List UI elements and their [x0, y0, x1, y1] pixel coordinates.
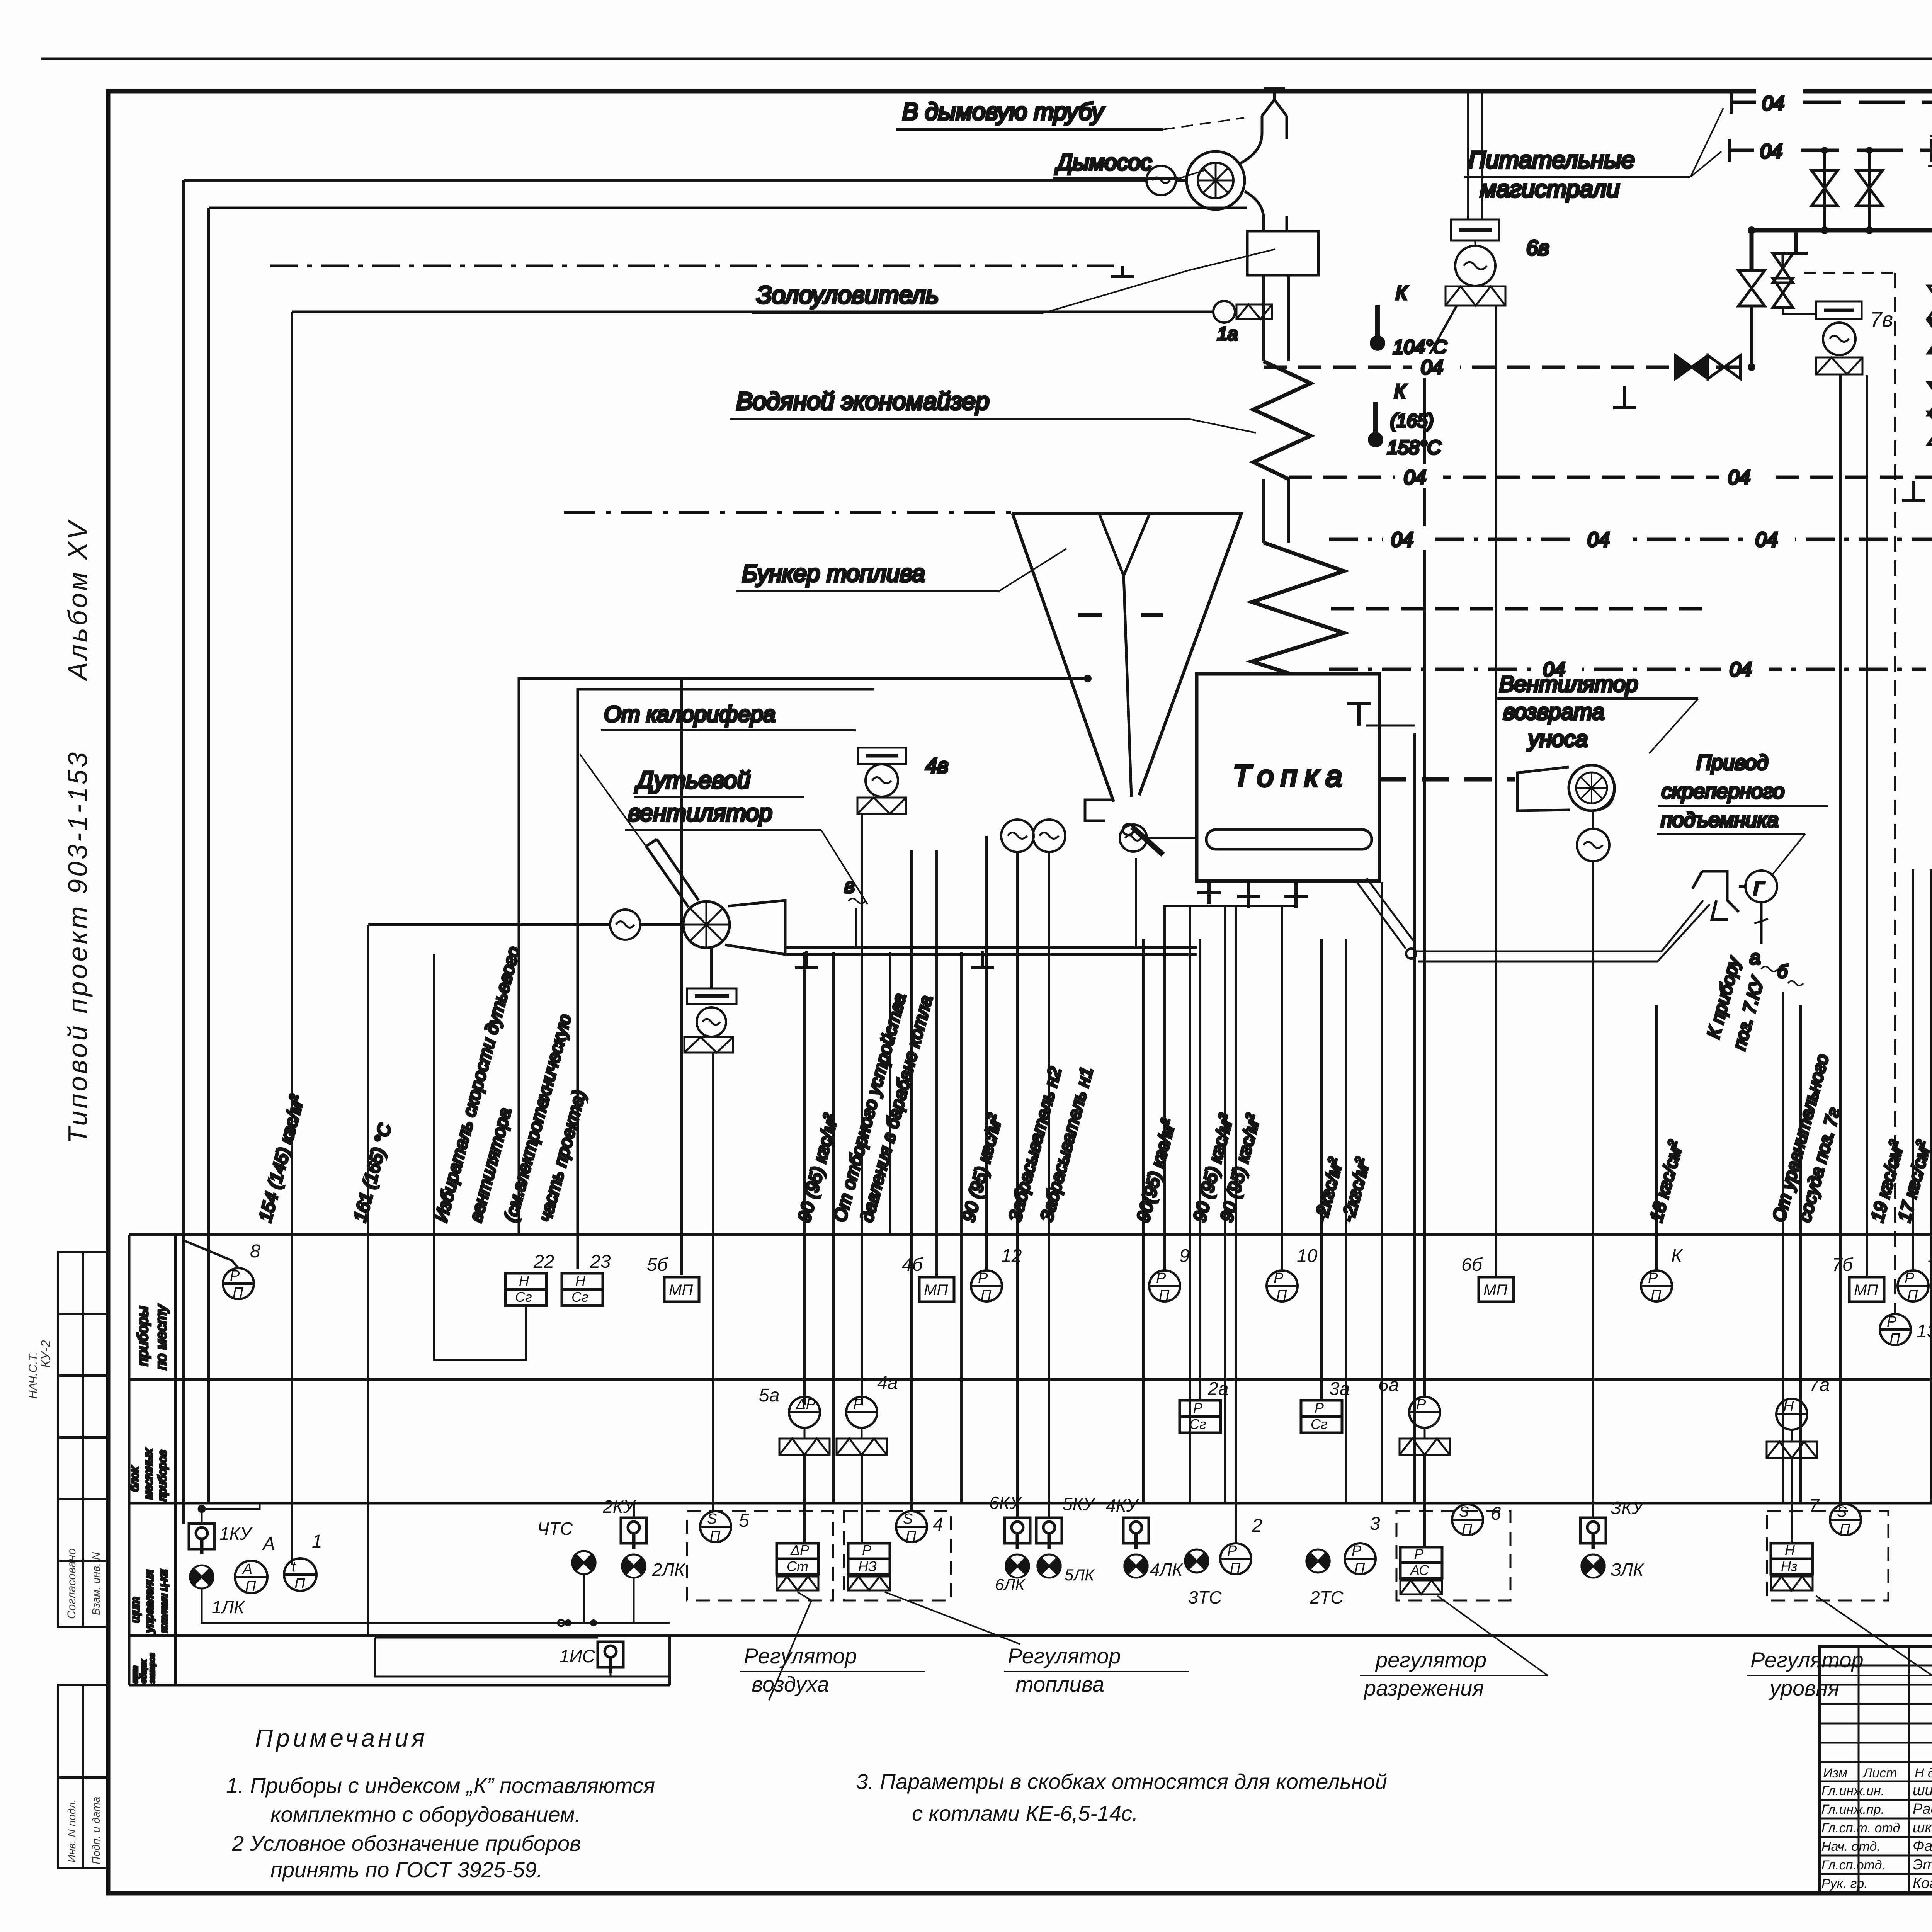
furnace top tap: [1347, 703, 1371, 726]
wire to key 1КУ: [182, 180, 185, 1524]
instrument ΔР 5а: [789, 1397, 820, 1428]
instrument Р/П 13: [1880, 1314, 1911, 1345]
wire to МП 5б: [680, 679, 683, 1275]
wire to Р/Сг 2а: [1199, 939, 1201, 1400]
return fan motor: [1577, 829, 1609, 861]
svg-text:школьник: школьник: [1913, 1820, 1932, 1836]
svg-text:общих: общих: [139, 1659, 148, 1683]
svg-text:4КУ: 4КУ: [1106, 1495, 1139, 1515]
pipe feed line upper 04: [1264, 366, 1752, 369]
wire to t-meter 1: [291, 312, 293, 1565]
svg-text:Регулятор: Регулятор: [744, 1644, 857, 1668]
key 5КУ: [1036, 1518, 1062, 1549]
wire Забрасыватель Н1: [1048, 852, 1050, 1518]
svg-text:12: 12: [1001, 1246, 1022, 1266]
svg-text:Регулятор: Регулятор: [1008, 1644, 1121, 1668]
svg-text:П: П: [981, 1287, 992, 1303]
wire furnace top tap: [1413, 733, 1416, 1503]
svg-text:МП: МП: [1483, 1282, 1508, 1299]
fan intake duct: [646, 839, 699, 907]
svg-text:разрежения: разрежения: [1363, 1676, 1484, 1700]
svg-text:6КУ: 6КУ: [989, 1493, 1023, 1513]
svg-text:8: 8: [250, 1241, 260, 1262]
slanted wire labels: [255, 944, 1932, 1225]
wire fan возврата motor: [1592, 862, 1594, 1518]
stoker motors Н2 Н1: [1001, 820, 1034, 852]
burner grate: [1206, 830, 1372, 849]
svg-text:КУ-2: КУ-2: [39, 1340, 53, 1368]
instrument Р 4а: [846, 1397, 877, 1428]
scraper conveyor: [1357, 878, 1415, 949]
svg-text:04: 04: [1421, 356, 1443, 379]
dashed wire to Р/П 13: [1894, 273, 1896, 1313]
svg-text:6: 6: [1491, 1503, 1501, 1524]
svg-text:3ТС: 3ТС: [1188, 1587, 1222, 1607]
svg-text:уровня: уровня: [1768, 1676, 1839, 1700]
wire speed selector b: [518, 679, 520, 1235]
regulator Р/НЗ: [848, 1543, 890, 1574]
svg-text:П: П: [294, 1576, 305, 1592]
svg-text:13: 13: [1917, 1321, 1932, 1342]
svg-text:1а: 1а: [1217, 324, 1238, 344]
instrument S/П 4: [896, 1511, 927, 1542]
svg-text:Р: Р: [1416, 1396, 1426, 1413]
key 4КУ: [1123, 1518, 1149, 1549]
lamp 4ЛК: [1124, 1554, 1148, 1578]
motor of Дымосос: [1146, 166, 1176, 195]
wire to Р 4а: [861, 813, 863, 1405]
svg-text:В дымовую трубу: В дымовую трубу: [902, 99, 1105, 125]
svg-text:Р: Р: [1193, 1400, 1202, 1416]
svg-text:принять по ГОСТ 3925-59.: принять по ГОСТ 3925-59.: [270, 1857, 543, 1882]
svg-text:3. Параметры в скобках относят: 3. Параметры в скобках относятся для кот…: [856, 1769, 1387, 1794]
instrument Р 6а: [1409, 1397, 1440, 1428]
feed header line 1: [1731, 101, 1932, 104]
instrument strip grid: [129, 1235, 1932, 1685]
regulator Н/НЗ: [1771, 1543, 1813, 1574]
wire to Р/П 10: [1281, 906, 1283, 1270]
water economizer coil: [1253, 361, 1311, 479]
svg-text:Гл.сп.т. отд: Гл.сп.т. отд: [1821, 1821, 1900, 1835]
svg-text:6ЛК: 6ЛК: [995, 1575, 1026, 1594]
svg-text:П: П: [1159, 1287, 1170, 1303]
chimney duct: [1262, 89, 1287, 139]
svg-text:Сг: Сг: [1189, 1416, 1206, 1432]
svg-text:S: S: [903, 1511, 913, 1527]
feed manifold header: [1752, 230, 1932, 270]
svg-text:Н: Н: [1783, 1398, 1794, 1415]
svg-text:Файерштейн: Файерштейн: [1913, 1838, 1932, 1854]
lamp 5ЛК: [1037, 1554, 1061, 1578]
instrument МП 7б: [1849, 1277, 1884, 1302]
svg-text:Р: Р: [862, 1542, 871, 1558]
wire 90(95): [889, 952, 891, 1235]
instrument Р/П 12: [971, 1270, 1002, 1301]
svg-text:топлива: топлива: [1015, 1672, 1104, 1696]
svg-text:Изм: Изм: [1823, 1766, 1847, 1781]
svg-text:S: S: [1837, 1504, 1847, 1520]
wire pump 6в to МП 6б: [1495, 306, 1497, 1276]
signature table texts: [1821, 1766, 1932, 1892]
svg-text:Привод: Привод: [1696, 751, 1768, 774]
svg-text:Р: Р: [230, 1268, 240, 1284]
wire to Р/П 9: [1163, 906, 1166, 1270]
wire 6КУ: [960, 952, 963, 1503]
svg-text:7: 7: [1809, 1496, 1820, 1516]
wire уравнит. сосуд b: [1799, 1005, 1802, 1503]
svg-text:котлами Ц-КЕ: котлами Ц-КЕ: [159, 1569, 169, 1633]
wire уравнит. сосуд a: [1782, 992, 1784, 1503]
svg-text:П: П: [1840, 1521, 1850, 1537]
svg-text:МП: МП: [1854, 1282, 1878, 1299]
svg-text:а: а: [1750, 947, 1760, 968]
svg-text:Р: Р: [1887, 1314, 1897, 1330]
wire to МП 4б: [935, 850, 938, 1276]
svg-text:04: 04: [1404, 466, 1426, 489]
title block: [1819, 1646, 1932, 1893]
instrument Р/П 10: [1267, 1270, 1298, 1301]
svg-text:щит: щит: [129, 1597, 142, 1623]
grate motor: [1120, 825, 1147, 852]
svg-text:От калорифера: От калорифера: [604, 702, 776, 727]
regulator Р/АС: [1400, 1547, 1442, 1578]
svg-text:5ЛК: 5ЛК: [1065, 1566, 1095, 1584]
ash collector Золоуловитель: [1247, 231, 1318, 275]
svg-text:Г: Г: [1753, 879, 1765, 899]
svg-text:04: 04: [1391, 529, 1413, 551]
svg-text:Подп. и дата: Подп. и дата: [90, 1797, 102, 1864]
svg-text:(165): (165): [1390, 411, 1434, 431]
svg-text:10: 10: [1297, 1246, 1318, 1266]
key 1ИС: [598, 1642, 623, 1673]
svg-text:шиллер: шиллер: [1913, 1782, 1932, 1799]
regulator ΔР/Ст: [777, 1543, 818, 1574]
lamp 3ТС: [1185, 1549, 1208, 1573]
furnace bottom taps: [1197, 881, 1221, 904]
pump unit 7в: [1816, 301, 1862, 319]
wire blower motor to S/П 5: [712, 1052, 714, 1511]
svg-text:4в: 4в: [925, 753, 948, 777]
instrument МП 4б: [919, 1277, 954, 1302]
svg-text:Взам. инв. N: Взам. инв. N: [90, 1552, 102, 1615]
svg-text:Р: Р: [1648, 1270, 1658, 1286]
svg-text:7в: 7в: [1870, 307, 1893, 331]
instrument МП 6б: [1479, 1277, 1514, 1302]
svg-text:с котлами КЕ-6,5-14с.: с котлами КЕ-6,5-14с.: [912, 1801, 1138, 1825]
svg-text:щит: щит: [131, 1666, 139, 1683]
svg-text:5а: 5а: [759, 1385, 779, 1406]
lamp 2ЛК: [622, 1554, 645, 1578]
svg-text:А: А: [262, 1534, 275, 1554]
instrument 1а (gas sampling): [1213, 301, 1235, 323]
svg-text:Сг: Сг: [1311, 1416, 1328, 1432]
svg-text:Гл.сп.отд.: Гл.сп.отд.: [1821, 1858, 1886, 1872]
wire furnace right: [1381, 882, 1383, 1503]
svg-text:вентилятор: вентилятор: [628, 800, 772, 827]
wire to S/П 4: [910, 850, 913, 1511]
svg-text:управления: управления: [143, 1570, 156, 1633]
wire to Р/Сг 3а: [1320, 939, 1323, 1400]
blower fan: [683, 901, 730, 948]
svg-text:П: П: [233, 1285, 243, 1301]
svg-text:НЗ: НЗ: [858, 1558, 877, 1574]
svg-text:4а: 4а: [877, 1373, 898, 1393]
svg-text:П: П: [1276, 1287, 1287, 1303]
svg-text:04: 04: [1755, 529, 1778, 551]
row2-row3 connecting stems: [634, 1455, 1932, 1547]
blower motor: [610, 910, 640, 940]
svg-text:Водяной экономайзер: Водяной экономайзер: [736, 387, 989, 415]
svg-text:Регулятор: Регулятор: [1750, 1648, 1864, 1672]
svg-text:б: б: [1777, 961, 1788, 981]
svg-text:Альбом XV: Альбом XV: [63, 519, 93, 682]
pipe line 04 No3: [1329, 668, 1932, 671]
row3 bus dots: [565, 1619, 571, 1626]
svg-text:2: 2: [1252, 1515, 1262, 1536]
svg-text:Инв. N подл.: Инв. N подл.: [66, 1799, 78, 1862]
svg-text:Дымосос: Дымосос: [1054, 150, 1152, 175]
svg-text:Р: Р: [1352, 1543, 1362, 1559]
svg-text:магистрали: магистрали: [1480, 176, 1620, 202]
svg-text:скреперного: скреперного: [1662, 780, 1784, 803]
wire to ΔР 5а: [803, 952, 806, 1405]
svg-text:7а: 7а: [1809, 1375, 1830, 1395]
nested box От калорифера inner: [578, 689, 874, 1269]
svg-text:К: К: [1396, 282, 1408, 304]
svg-text:возврата: возврата: [1503, 699, 1604, 724]
instrument Р/П 2: [1220, 1543, 1251, 1574]
kink wire to Р/П 8: [184, 1240, 238, 1268]
svg-text:приборы: приборы: [135, 1306, 151, 1366]
node a at scraper drive: [1760, 902, 1763, 944]
svg-text:S: S: [1459, 1504, 1469, 1520]
middle feed string to pump 7в: [1782, 255, 1784, 270]
wire to Р/П 2: [1235, 906, 1237, 1543]
svg-text:П: П: [1462, 1521, 1473, 1537]
wire to box 23: [577, 689, 579, 1269]
lamp ЧТС: [572, 1551, 595, 1574]
svg-text:местных: местных: [142, 1449, 155, 1499]
svg-text:Р: Р: [978, 1270, 988, 1286]
feed valves under headers: [1823, 150, 1826, 230]
fan volute to chimney duct: [1238, 133, 1264, 216]
wire Забрасыватель Н2: [1016, 852, 1019, 1518]
dashed link pump to wire: [1804, 272, 1895, 274]
svg-text:Р: Р: [1274, 1270, 1284, 1286]
instrument Н/Сг 22: [505, 1273, 546, 1306]
svg-text:комплектно с оборудованием.: комплектно с оборудованием.: [270, 1802, 581, 1827]
stamp column rotated texts: [27, 1340, 102, 1864]
svg-text:2 Условное обозначение приборо: 2 Условное обозначение приборов: [231, 1831, 581, 1855]
wire 18кгс to Р/П К: [1655, 1005, 1658, 1270]
svg-text:ΔР: ΔР: [796, 1396, 816, 1413]
wire to Р/П 15: [1912, 869, 1914, 1270]
svg-text:7б: 7б: [1832, 1255, 1854, 1275]
svg-text:15: 15: [1928, 1246, 1932, 1266]
bypass dash line y688: [270, 265, 1122, 267]
svg-text:6б: 6б: [1461, 1255, 1483, 1275]
svg-text:Р: Р: [1905, 1270, 1915, 1286]
blower drive train: [710, 948, 713, 988]
svg-text:приборов: приборов: [156, 1450, 169, 1501]
svg-text:2а: 2а: [1207, 1379, 1228, 1399]
second coil: [1252, 543, 1344, 674]
wire speed selector a: [433, 954, 435, 1235]
wire furnace b: [1189, 906, 1191, 1503]
svg-text:П: П: [1907, 1287, 1918, 1303]
instrument Н/Сг 23: [562, 1273, 603, 1306]
svg-text:3: 3: [1370, 1514, 1380, 1534]
svg-text:в: в: [844, 875, 855, 897]
svg-text:ΔР: ΔР: [790, 1542, 809, 1558]
furnace outlet dash pipe: [1379, 777, 1515, 782]
svg-text:Лист: Лист: [1862, 1766, 1897, 1781]
duct line y538: [209, 207, 1247, 209]
key 3КУ: [1580, 1518, 1606, 1549]
instrument S/П 6: [1452, 1504, 1483, 1535]
svg-text:Рук. гр.: Рук. гр.: [1821, 1876, 1868, 1891]
svg-text:22: 22: [533, 1252, 554, 1272]
svg-text:Н: Н: [1785, 1542, 1795, 1558]
scraper bucket: [1692, 871, 1739, 920]
svg-text:МП: МП: [669, 1282, 693, 1299]
regulator level dashed box: [1767, 1511, 1888, 1600]
instrument t/П 1: [284, 1558, 316, 1591]
svg-text:ЧТС: ЧТС: [537, 1519, 573, 1539]
svg-text:подъемника: подъемника: [1661, 808, 1779, 832]
flue duct line y467: [184, 179, 1146, 182]
svg-text:Ст: Ст: [787, 1558, 808, 1574]
instrument МП 5б: [664, 1277, 699, 1302]
wire drum pressure a: [832, 952, 835, 1503]
svg-text:Р: Р: [1156, 1270, 1166, 1286]
svg-text:Нз: Нз: [1781, 1558, 1798, 1574]
svg-text:Раскин: Раскин: [1913, 1801, 1932, 1817]
svg-text:Бункер топлива: Бункер топлива: [742, 560, 925, 587]
svg-text:4ЛК: 4ЛК: [1150, 1560, 1184, 1580]
svg-text:П: П: [245, 1578, 256, 1594]
svg-text:2ТС: 2ТС: [1310, 1587, 1344, 1607]
regulator fuel dashed box: [844, 1511, 951, 1600]
svg-text:Р: Р: [1315, 1400, 1324, 1416]
svg-text:1ИС: 1ИС: [560, 1646, 595, 1666]
svg-text:Р: Р: [1414, 1546, 1423, 1562]
svg-text:ЗКУ: ЗКУ: [1611, 1498, 1645, 1518]
svg-text:Н: Н: [519, 1273, 529, 1289]
duct economizer to superheater: [1264, 479, 1289, 543]
air duct fan to furnace: [785, 947, 1197, 954]
svg-text:6в: 6в: [1526, 236, 1549, 260]
feed header line 2: [1729, 149, 1932, 152]
wire to МП 7б: [1866, 375, 1868, 1276]
instrument Н 7а: [1776, 1399, 1807, 1430]
svg-text:04: 04: [1587, 529, 1610, 551]
svg-text:П: П: [1651, 1287, 1662, 1303]
feed pump 6в: [1446, 91, 1505, 306]
return fan: [1569, 765, 1614, 811]
stoker 4в: [858, 748, 906, 764]
loop under 22/23: [434, 1235, 526, 1360]
left feed string: [1738, 270, 1765, 306]
svg-text:Дутьевой: Дутьевой: [634, 767, 750, 794]
svg-text:Сг: Сг: [571, 1289, 588, 1305]
T tap on feed line: [1613, 386, 1636, 408]
pipe feed line lower 04: [1289, 476, 1932, 479]
svg-text:П: П: [710, 1528, 721, 1544]
duct collector to economizer: [1264, 275, 1289, 361]
fuel feeder: [1085, 800, 1113, 821]
wire -2кгс: [1345, 939, 1347, 1503]
wire to Р/П 12: [985, 836, 988, 1270]
duct fan to collector: [1264, 216, 1287, 231]
left margin stamp box group lower: [58, 1685, 108, 1868]
svg-text:ЗЛК: ЗЛК: [1611, 1560, 1645, 1580]
svg-text:Гл.инж.ин.: Гл.инж.ин.: [1821, 1784, 1884, 1798]
svg-text:6а: 6а: [1378, 1375, 1399, 1395]
instrument Р/П 3: [1345, 1543, 1376, 1574]
instrument Р/П К: [1641, 1270, 1672, 1301]
svg-text:3а: 3а: [1329, 1379, 1350, 1399]
svg-text:5: 5: [739, 1510, 749, 1531]
instrument Р/П 15: [1898, 1270, 1929, 1301]
pipe line 04 No2: [1331, 607, 1708, 611]
svg-text:5б: 5б: [647, 1255, 668, 1275]
svg-text:Типовой проект 903-1-153: Типовой проект 903-1-153: [63, 750, 93, 1144]
svg-text:Гл.инж.пр.: Гл.инж.пр.: [1821, 1802, 1884, 1817]
svg-text:4б: 4б: [902, 1255, 923, 1275]
wire pump 6в to Р 6а: [1425, 306, 1457, 1396]
fuel hopper: [1012, 513, 1242, 802]
svg-text:Н докум.: Н докум.: [1915, 1766, 1932, 1781]
svg-text:П: П: [1354, 1560, 1365, 1576]
svg-text:регулятор: регулятор: [1375, 1648, 1486, 1672]
key 1КУ: [189, 1524, 214, 1554]
instrument Р/П 9: [1149, 1270, 1180, 1301]
svg-text:К: К: [1671, 1246, 1683, 1266]
sample line y807 to instrument 1а: [292, 311, 1213, 313]
svg-text:23: 23: [590, 1252, 611, 1272]
svg-text:9: 9: [1179, 1246, 1190, 1266]
wire furnace c: [1224, 906, 1226, 1503]
row4 wiring loop: [375, 1638, 670, 1677]
svg-text:Топка: Топка: [1233, 759, 1349, 793]
svg-text:1. Приборы с индексом „К” пост: 1. Приборы с индексом „К” поставляются: [226, 1773, 655, 1798]
wire from pump 7в a: [1839, 375, 1842, 1503]
svg-text:04: 04: [1730, 658, 1752, 681]
svg-text:П: П: [906, 1528, 917, 1544]
lamp ЗЛК: [1582, 1554, 1605, 1578]
scraper drive motor: [1745, 871, 1777, 902]
svg-text:4: 4: [933, 1514, 943, 1535]
lamp 2ТС: [1306, 1549, 1330, 1573]
svg-text:Нач. отд.: Нач. отд.: [1821, 1839, 1881, 1854]
instrument Р/П 8: [223, 1268, 254, 1299]
svg-text:блок: блок: [128, 1466, 141, 1492]
wire 90(95) furnace: [1142, 939, 1145, 1503]
svg-text:Коганов: Коганов: [1913, 1875, 1932, 1891]
wire (ash line tap): [207, 208, 210, 1503]
svg-text:t: t: [292, 1559, 296, 1575]
svg-text:Согласовано: Согласовано: [65, 1548, 78, 1619]
svg-text:04: 04: [1760, 140, 1782, 163]
lamp 6ЛК: [1006, 1554, 1029, 1578]
svg-text:воздуха: воздуха: [752, 1672, 829, 1696]
svg-text:04: 04: [1762, 92, 1784, 115]
svg-text:уноса: уноса: [1527, 726, 1588, 752]
smoke fan Дымосос: [1187, 151, 1245, 209]
left margin stamp box group upper: [58, 1252, 108, 1627]
key 6КУ: [1005, 1518, 1030, 1549]
